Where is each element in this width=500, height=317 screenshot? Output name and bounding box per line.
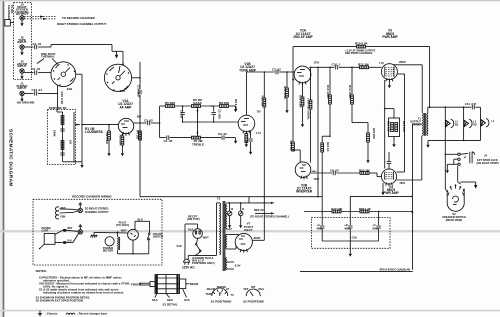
rotary switch S1B	[51, 62, 76, 87]
resistor	[321, 143, 324, 152]
element	[385, 173, 394, 179]
rotary switch S1A	[104, 64, 131, 91]
ground	[426, 142, 429, 148]
wire	[310, 67, 312, 100]
element	[70, 78, 74, 81]
element	[128, 72, 129, 73]
gray scan band low	[0, 310, 500, 312]
svg-text:R22 1M: R22 1M	[359, 168, 370, 172]
wire	[322, 135, 330, 137]
svg-text:(TO RIGHT STEREO CHANNEL): (TO RIGHT STEREO CHANNEL)	[250, 215, 289, 219]
wire	[40, 244, 44, 248]
wire	[384, 67, 386, 77]
grid resistor R2	[108, 125, 110, 131]
wire	[170, 137, 192, 139]
wire	[182, 116, 184, 123]
element	[113, 89, 114, 90]
wire	[386, 78, 387, 81]
wire	[121, 123, 125, 125]
ground	[121, 150, 124, 156]
wire	[123, 132, 124, 135]
wire	[166, 294, 170, 298]
mid wiper line	[183, 121, 239, 123]
junction	[329, 135, 331, 137]
arrowhead	[271, 202, 275, 204]
element	[3, 0, 5, 317]
wire	[305, 81, 306, 84]
wire	[424, 113, 426, 136]
svg-text:INPUT: INPUT	[18, 64, 27, 68]
vertical bus x82	[81, 74, 83, 162]
junction	[384, 108, 386, 110]
svg-text:+A: +A	[317, 223, 321, 227]
resistor	[192, 136, 201, 139]
resistor	[367, 133, 370, 142]
wire	[255, 212, 271, 214]
svg-text:MOTOR: MOTOR	[103, 249, 113, 253]
wire S1A to vertical bus	[132, 77, 140, 79]
svg-text:NO GROUND: NO GROUND	[17, 100, 34, 104]
element	[422, 113, 425, 136]
wire	[229, 203, 231, 211]
svg-text:RIGHT STEREO CHANNEL OUTPUT: RIGHT STEREO CHANNEL OUTPUT	[57, 22, 106, 26]
T1 secondary to speaker rail	[427, 107, 429, 113]
wire	[376, 173, 378, 177]
element	[106, 73, 107, 74]
element	[463, 189, 465, 191]
shaft	[150, 282, 155, 287]
svg-text:INPUT: INPUT	[18, 86, 27, 90]
junction	[463, 140, 465, 142]
tube V2A	[294, 66, 311, 83]
junction	[329, 67, 331, 69]
wire	[349, 196, 351, 225]
speaker switch S2	[447, 191, 464, 212]
element	[448, 193, 449, 196]
ground loudness	[80, 162, 83, 168]
wire	[392, 78, 393, 81]
bottom border of schematic	[300, 270, 413, 272]
junction	[286, 71, 288, 73]
element	[220, 203, 221, 255]
element	[450, 186, 452, 188]
wire	[427, 140, 429, 141]
wire	[124, 120, 129, 122]
capacitor	[212, 113, 216, 115]
svg-text:.S1B: .S1B	[66, 87, 72, 91]
element	[74, 71, 75, 72]
R18 R19 box	[389, 118, 400, 137]
wire	[60, 211, 74, 214]
V3 screen line	[397, 73, 404, 75]
capacitor C13	[35, 91, 37, 95]
element	[156, 275, 158, 294]
ground	[107, 150, 110, 156]
capacitor	[167, 135, 169, 139]
arrowhead	[40, 16, 44, 18]
svg-text:CHANNEL OUTPUT: CHANNEL OUTPUT	[85, 210, 109, 214]
V3 plate wire	[393, 64, 422, 66]
loudness inner network	[62, 112, 64, 162]
svg-text:indicating clockwise rotation: indicating clockwise rotation as viewed …	[43, 291, 124, 295]
junction	[411, 196, 413, 198]
feedback drop left	[292, 47, 294, 142]
V3 V4 cathode line	[384, 80, 386, 169]
element	[53, 70, 54, 71]
wire	[388, 152, 390, 161]
element	[453, 196, 459, 202]
speaker L2	[464, 119, 472, 128]
svg-text:C13 .01: C13 .01	[32, 88, 43, 92]
ground	[234, 138, 237, 144]
wire	[321, 212, 323, 226]
ground	[381, 189, 384, 195]
speaker L1	[446, 119, 454, 128]
svg-text:40MF: 40MF	[344, 228, 351, 231]
wire	[187, 255, 189, 259]
wire	[131, 233, 133, 235]
svg-text:8Ω: 8Ω	[455, 124, 458, 127]
element	[226, 258, 227, 271]
AC plug	[184, 259, 190, 262]
wire	[55, 242, 63, 244]
wire	[184, 224, 186, 249]
ground	[245, 141, 248, 147]
wire	[367, 142, 369, 157]
svg-text:7.4V: 7.4V	[379, 62, 384, 65]
svg-text:(ON TOP): (ON TOP)	[187, 217, 200, 221]
element	[79, 224, 82, 229]
wire	[197, 238, 198, 243]
speaker top rail	[428, 106, 472, 108]
capacitor	[60, 129, 64, 131]
vertical bus x140	[139, 62, 141, 90]
wire	[393, 137, 395, 142]
ground	[20, 96, 23, 102]
resistor	[391, 123, 394, 132]
wire	[73, 211, 78, 212]
wire	[112, 50, 123, 52]
element	[39, 248, 41, 250]
svg-text:40MF: 40MF	[317, 228, 324, 231]
element	[55, 211, 59, 215]
wire	[38, 46, 51, 48]
wire	[155, 288, 180, 290]
svg-text:C14 1MF: C14 1MF	[137, 85, 141, 98]
tube V2B	[295, 162, 311, 178]
resistor	[329, 95, 332, 104]
cap B	[348, 226, 352, 228]
svg-text:S2 POSITIONS: S2 POSITIONS	[243, 299, 264, 303]
svg-text:0V: 0V	[292, 79, 295, 82]
junction	[264, 196, 266, 198]
junction	[317, 196, 319, 198]
wire	[52, 59, 58, 65]
wire	[38, 72, 51, 74]
wire	[119, 237, 121, 250]
arrowhead	[474, 185, 477, 189]
svg-text:PHONO: PHONO	[217, 286, 226, 289]
filter cap pack dashed box	[311, 218, 390, 249]
wire	[227, 268, 234, 270]
ground	[349, 251, 352, 257]
wire	[201, 137, 222, 139]
element	[118, 237, 119, 251]
wire	[224, 201, 226, 271]
svg-text:TO RIGHT STEREO: TO RIGHT STEREO	[85, 206, 109, 210]
wire	[263, 107, 265, 197]
capacitor	[180, 113, 184, 115]
svg-text:S1B: S1B	[167, 298, 174, 302]
junction	[182, 121, 184, 123]
R10 plate load	[263, 72, 265, 98]
junction	[429, 106, 431, 108]
ground	[285, 107, 288, 113]
wire	[250, 292, 253, 297]
wire	[175, 105, 192, 107]
grid wire to V1A	[82, 124, 118, 126]
margin connector box	[5, 20, 11, 27]
wire	[292, 150, 294, 151]
capacitor	[148, 121, 150, 125]
svg-text:115V AC: 115V AC	[182, 266, 195, 270]
wire	[241, 243, 246, 245]
svg-text:THERMAL: THERMAL	[41, 55, 55, 59]
svg-text:C7 .02: C7 .02	[272, 67, 281, 71]
wire	[459, 187, 462, 190]
ground below J3	[20, 20, 23, 26]
svg-text:170V: 170V	[314, 62, 320, 65]
svg-text:AF AMP: AF AMP	[119, 105, 132, 109]
ground	[234, 106, 237, 112]
S1 positions dial	[212, 288, 228, 296]
tube V3	[381, 64, 397, 80]
capacitor	[138, 91, 142, 93]
wire	[349, 229, 351, 241]
wire	[241, 235, 245, 237]
element	[63, 241, 67, 244]
svg-text:R18 180: R18 180	[387, 121, 391, 132]
wire	[238, 235, 240, 237]
wire	[322, 240, 378, 242]
wire	[369, 211, 412, 213]
wire	[351, 104, 353, 123]
svg-text:C11 .047: C11 .047	[465, 102, 477, 106]
wire	[460, 181, 475, 183]
wire phono	[24, 92, 33, 94]
arrowhead	[464, 155, 466, 158]
wire	[240, 216, 242, 222]
wire	[196, 251, 201, 255]
junction	[378, 211, 380, 213]
resistor	[301, 97, 304, 106]
wire	[184, 262, 186, 265]
ground	[446, 167, 449, 173]
junction	[213, 121, 215, 123]
svg-text:R17 10K: R17 10K	[331, 207, 342, 211]
svg-text:R13 100K: R13 100K	[326, 85, 330, 99]
wire	[384, 172, 386, 180]
svg-text:1M: 1M	[69, 140, 73, 145]
wire	[118, 253, 149, 255]
wire	[453, 159, 455, 164]
wire	[116, 51, 118, 55]
capacitor	[276, 70, 278, 74]
wire	[213, 292, 215, 294]
ground	[366, 157, 369, 163]
wire	[225, 292, 227, 294]
resistor	[292, 142, 295, 151]
svg-text:R20 6.2K: R20 6.2K	[355, 42, 369, 46]
wire	[117, 232, 119, 236]
svg-text:260V: 260V	[254, 236, 261, 240]
node riser	[159, 106, 161, 138]
svg-text:TAPE: TAPE	[206, 293, 213, 296]
wire	[336, 172, 360, 174]
wire	[369, 66, 382, 68]
changer output jack	[78, 208, 82, 212]
wire	[446, 164, 448, 167]
element	[56, 64, 60, 68]
svg-text:C3 .05: C3 .05	[180, 110, 184, 119]
wire	[475, 182, 477, 185]
pilot lamp I2	[227, 211, 232, 216]
svg-text:R14 100K: R14 100K	[348, 85, 352, 99]
svg-text:.S1A: .S1A	[119, 89, 125, 93]
wire	[246, 249, 247, 252]
svg-text:R3 2.2K: R3 2.2K	[119, 135, 123, 147]
junction	[264, 71, 266, 73]
capacitor	[387, 162, 391, 164]
element	[91, 235, 98, 237]
plate wire V1A	[134, 122, 147, 124]
wire	[165, 275, 167, 294]
svg-text:FRONT: FRONT	[131, 282, 141, 286]
capacitor	[472, 105, 474, 109]
element	[455, 184, 457, 186]
element	[44, 234, 55, 245]
junction	[445, 106, 447, 108]
wire	[248, 197, 250, 203]
wire	[453, 204, 457, 206]
T1 center tap stub	[413, 123, 423, 125]
output transformer T1	[423, 113, 428, 136]
wire	[303, 176, 305, 179]
resistor	[332, 210, 341, 213]
svg-text:R24 1K: R24 1K	[326, 142, 330, 151]
arrowhead	[43, 18, 47, 20]
wire	[299, 150, 301, 162]
element	[66, 313, 75, 315]
wire	[391, 183, 392, 186]
phono motor	[105, 237, 114, 246]
wire	[93, 232, 95, 235]
wire	[404, 74, 406, 172]
wire	[184, 249, 186, 259]
treble wiper	[197, 122, 199, 136]
svg-text:SWITCH: SWITCH	[153, 234, 163, 238]
element	[110, 67, 115, 71]
junction	[197, 121, 199, 123]
resistor	[61, 141, 64, 150]
wire	[301, 176, 302, 179]
svg-text:(REAR VIEW): (REAR VIEW)	[446, 218, 463, 222]
junction	[463, 106, 465, 108]
bottom path treble	[160, 137, 166, 139]
junction	[411, 211, 413, 213]
wire	[239, 238, 243, 240]
V1B cathode	[245, 132, 247, 134]
wire	[121, 145, 123, 150]
svg-text:R9 4.7K: R9 4.7K	[234, 99, 238, 111]
junction	[139, 77, 141, 79]
element	[226, 234, 227, 249]
svg-text:R11 470K: R11 470K	[283, 86, 287, 100]
wire	[111, 45, 113, 52]
vertical x352 R14	[351, 67, 353, 95]
wire	[217, 290, 218, 292]
wire am-fm	[24, 72, 33, 74]
svg-text:S1 DETAIL: S1 DETAIL	[162, 302, 177, 306]
S2 pins	[445, 189, 447, 192]
speaker bottom rail	[428, 139, 481, 141]
resistor	[108, 131, 111, 140]
wire	[57, 111, 63, 113]
wire	[120, 71, 125, 76]
pilot lamp I1	[238, 211, 243, 216]
resistor	[61, 116, 64, 125]
svg-text:8Ω: 8Ω	[473, 124, 476, 127]
wire	[321, 197, 323, 212]
svg-text:TV: TV	[231, 294, 235, 297]
wire	[367, 123, 369, 133]
tube V4	[381, 169, 396, 184]
wire tape input	[24, 46, 33, 48]
svg-text:R2 2.2M: R2 2.2M	[105, 133, 109, 145]
element	[226, 204, 227, 229]
svg-text:GRN: GRN	[60, 216, 65, 218]
svg-text:R16 3.3K: R16 3.3K	[60, 92, 64, 106]
wire	[279, 71, 294, 73]
wire	[155, 283, 180, 285]
ground	[228, 222, 231, 228]
junction	[57, 93, 59, 95]
wire	[463, 107, 465, 140]
element	[79, 203, 82, 209]
ground	[20, 49, 23, 55]
svg-text:C2 .01: C2 .01	[32, 67, 41, 71]
wire	[219, 293, 221, 296]
wire	[73, 234, 78, 243]
element	[463, 193, 464, 196]
cap C	[376, 226, 380, 228]
svg-text:6.3V: 6.3V	[226, 227, 232, 231]
element	[199, 231, 200, 234]
wire	[458, 182, 461, 184]
wire	[350, 195, 412, 197]
jack J3	[20, 16, 24, 20]
V4 cathode ground	[382, 183, 384, 189]
wire V1B to V2A	[247, 71, 275, 73]
R23 bias resistor	[355, 122, 368, 124]
svg-text:260V: 260V	[400, 182, 406, 185]
V3 cathode ground	[388, 80, 390, 82]
svg-text:NOTES:: NOTES:	[36, 269, 47, 273]
resistor R4 on x140	[139, 131, 142, 140]
top gray scan line	[0, 0, 500, 1]
ground	[388, 82, 391, 88]
cathode resistor R3	[121, 133, 123, 136]
